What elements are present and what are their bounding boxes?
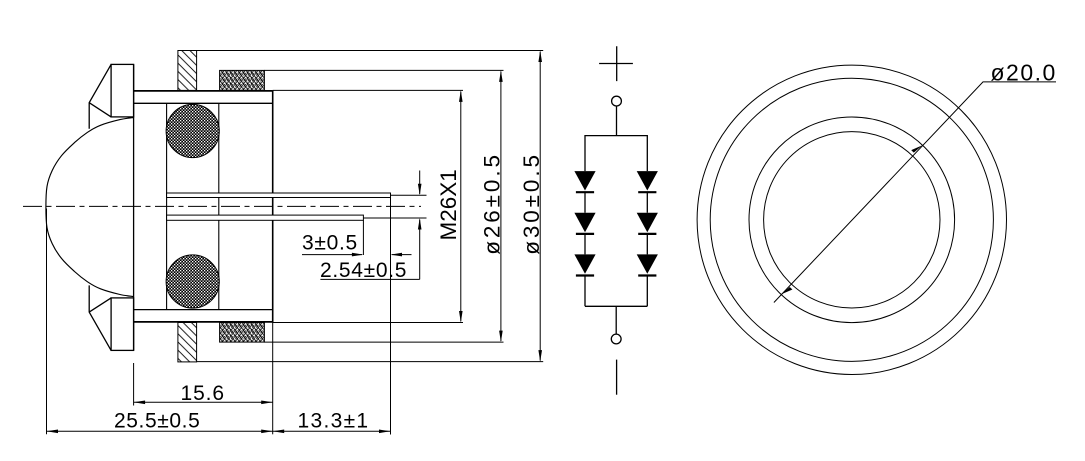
body left edge: [133, 64, 135, 350]
arrow up at pin bottom midline: [418, 218, 422, 230]
diode D6: [637, 254, 658, 273]
o-ring top: [166, 104, 219, 157]
flange top block: [111, 64, 134, 117]
dim line 13.3: [273, 430, 391, 432]
dim 2.54 lower tail and shelf: [320, 220, 419, 280]
wire right branch segments: [646, 192, 648, 306]
dim line M26X1: [460, 92, 462, 322]
terminal circle top: [612, 96, 622, 106]
svg-text:M26X1: M26X1: [436, 169, 461, 240]
ext line bottom for M26X1: [273, 322, 463, 324]
arrow right at bottom pin end: [352, 253, 364, 257]
third circle: [749, 117, 955, 323]
wire left branch segments: [584, 192, 586, 306]
svg-text:ø26±0.5: ø26±0.5: [480, 152, 505, 255]
centerline: [23, 205, 421, 207]
dim line dia30: [539, 52, 541, 361]
svg-text:ø20.0: ø20.0: [991, 59, 1057, 85]
dia30 arrows: [538, 51, 542, 63]
inner circle: [764, 132, 940, 308]
svg-text:25.5±0.5: 25.5±0.5: [114, 409, 200, 432]
svg-text:13.3±1: 13.3±1: [298, 409, 370, 432]
nut bottom (cross hatched): [220, 323, 265, 343]
flange bottom chamfer: [89, 285, 111, 350]
nut top (cross hatched): [220, 70, 265, 90]
ext line bottom for dia26: [264, 341, 503, 343]
ext line top for M26X1: [273, 89, 463, 91]
body outline: [134, 91, 273, 322]
extension line from top pin end down: [390, 198, 392, 435]
dim line 15.6: [134, 401, 273, 403]
arrow down at pin top midline: [418, 184, 422, 196]
flange top chamfer: [89, 64, 111, 128]
diode D3: [574, 254, 595, 273]
ext line left for 25.5: [46, 209, 48, 435]
dim 3 left arrow tail: [392, 254, 412, 256]
diameter leader line: [774, 82, 1056, 303]
leader arrow upper: [911, 145, 922, 152]
second circle: [710, 78, 993, 361]
arrow left at top pin end ext: [391, 253, 403, 257]
outer circle: [697, 65, 1006, 374]
dia26 arrows: [499, 70, 503, 82]
plus sign: [599, 46, 633, 81]
wire top rail: [585, 136, 647, 172]
body collar inner lines: [134, 103, 273, 309]
dim line 25.5: [47, 430, 273, 432]
pin top: [167, 193, 391, 198]
ext line right of body down: [272, 323, 274, 435]
wire bottom: [615, 306, 617, 334]
o-ring bottom: [166, 255, 219, 308]
13.3 arrows: [273, 430, 285, 434]
wire bottom rail: [585, 305, 647, 307]
pin bottom: [167, 215, 364, 220]
diode D1: [574, 171, 595, 190]
diode D2: [574, 213, 595, 233]
svg-text:15.6: 15.6: [181, 382, 225, 405]
ext line for 15.6 left: [133, 363, 135, 406]
panel wall bottom (hatched): [178, 323, 197, 362]
flange bottom block: [111, 298, 134, 351]
dim 2.54 upper arrow tail: [419, 171, 421, 195]
lead bottom: [616, 360, 618, 395]
15.6 arrows: [134, 401, 146, 405]
25.5 arrows: [47, 430, 59, 434]
ext line top for dia26: [264, 69, 503, 71]
ext line top for dia30: [197, 50, 544, 52]
svg-text:ø30±0.5: ø30±0.5: [519, 152, 544, 255]
svg-text:3±0.5: 3±0.5: [302, 231, 358, 254]
leader arrow lower: [781, 287, 792, 294]
panel wall top (hatched): [178, 51, 197, 91]
M26X1 arrows: [459, 90, 463, 102]
wire top: [616, 106, 618, 136]
pin top midline extension: [391, 194, 427, 196]
diode D5: [637, 213, 658, 233]
svg-text:2.54±0.5: 2.54±0.5: [320, 259, 407, 282]
dim line dia26: [500, 72, 502, 342]
dim 3 shelf: [302, 254, 362, 256]
diode D4: [637, 171, 658, 190]
extension line from bottom pin end down: [362, 220, 364, 255]
ext line bottom for dia30: [197, 361, 544, 363]
dome lens arc: [46, 118, 134, 297]
terminal circle bottom: [611, 334, 621, 344]
pin bottom midline extension: [363, 217, 426, 219]
body inner wall right: [218, 103, 220, 309]
body inner wall left: [166, 103, 168, 309]
